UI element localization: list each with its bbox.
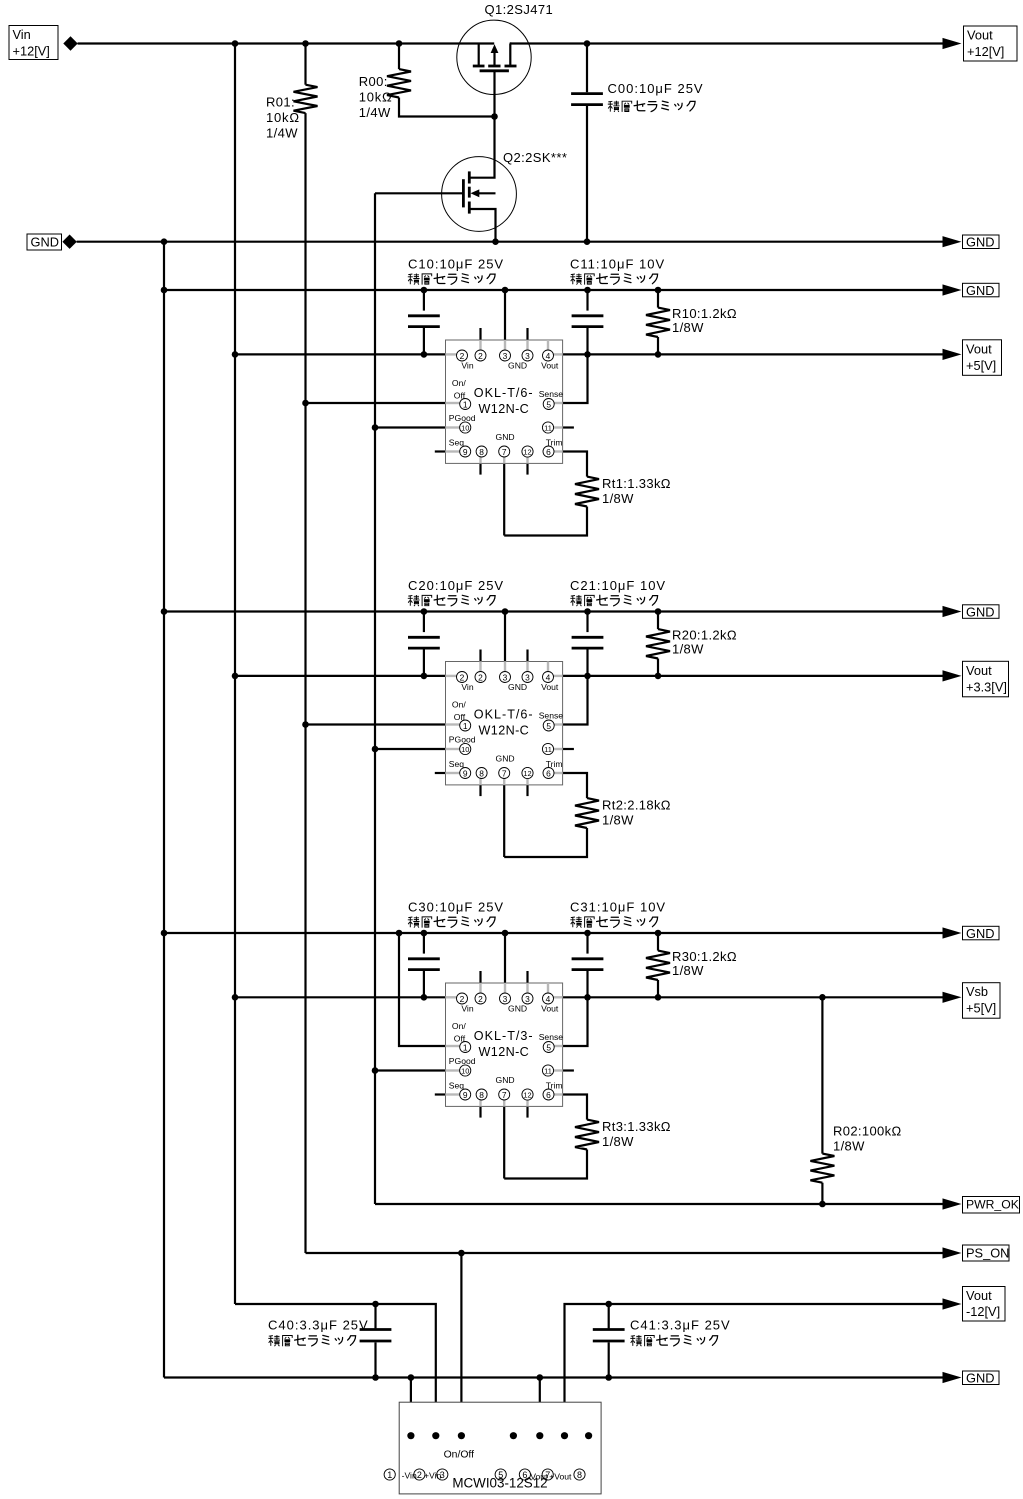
svg-text:C31:10μF 10V: C31:10μF 10V	[570, 900, 666, 915]
wire GND pin7 down (U2)	[503, 785, 505, 857]
node junction Vout rail U2 / bleeder	[655, 673, 662, 680]
svg-text:9: 9	[463, 447, 468, 457]
node Vsb +5[V] label	[963, 983, 1001, 1019]
resistor R30 bleeder 1.2k 1/8W	[657, 933, 659, 951]
node junction GND rail / C00	[584, 238, 591, 245]
svg-text:GND: GND	[966, 926, 994, 941]
op-amp U1 DC-DC module OKL-T/6-W12N-C body	[446, 340, 564, 463]
wire stub Seq pin9 (U3)	[435, 1093, 446, 1095]
resistor R20 bleeder 1.2k 1/8W	[657, 612, 659, 630]
node junction Vin bus / Vin rail U1	[232, 351, 239, 358]
wire GND pin3 to GND rail (U2)	[504, 612, 506, 662]
node GND diamond	[62, 235, 76, 249]
wire stub Seq pin9 (U1)	[435, 450, 446, 452]
wire stub pin8 (U2)	[479, 785, 481, 796]
svg-text:OKL-T/3-: OKL-T/3-	[474, 1029, 534, 1043]
svg-text:GND: GND	[508, 682, 527, 692]
wire MCW pin3 On/Off to PS_ON	[460, 1253, 462, 1436]
wire Vin rail module U2	[235, 675, 446, 677]
wire PGood pin10 to PWR_OK bus (U2)	[375, 748, 446, 750]
svg-text:+12[V]: +12[V]	[13, 44, 50, 59]
svg-text:Vout: Vout	[541, 1003, 559, 1013]
node PS_ON label	[963, 1245, 1010, 1261]
wire stub pin8 (U3)	[479, 1106, 481, 1117]
svg-text:1: 1	[463, 1043, 468, 1053]
wire arrow to output (U3)	[943, 992, 962, 1003]
node junction rail U1 / pin3 GND	[502, 287, 509, 294]
svg-text:10: 10	[461, 1067, 469, 1076]
wire Vout rail module U2	[563, 675, 945, 677]
node junction rail U3 / C31	[584, 930, 591, 937]
svg-text:PWR_OK: PWR_OK	[966, 1198, 1019, 1212]
svg-text:Vout: Vout	[966, 1288, 992, 1303]
node junction Vin rail U1 / input cap	[421, 351, 428, 358]
node junction rail U3 / C30	[421, 930, 428, 937]
wire Trim pin6 (U2)	[563, 773, 587, 798]
svg-text:10: 10	[461, 745, 469, 754]
node junction On/Off tie / GND rail U3	[396, 930, 403, 937]
node junction rail U1 / C11	[584, 287, 591, 294]
wire bottom GND line	[164, 1376, 945, 1378]
svg-text:12: 12	[523, 448, 531, 457]
svg-text:GND: GND	[966, 1371, 994, 1386]
svg-text:C30:10μF 25V: C30:10μF 25V	[408, 900, 504, 915]
svg-text:1/8W: 1/8W	[602, 813, 634, 828]
wire arrow to GND bottom	[943, 1372, 962, 1383]
node junction Vin rail U3 / input cap	[421, 994, 428, 1001]
wire Sense pin5 to Vout (U2)	[563, 676, 588, 725]
svg-text:W12N-C: W12N-C	[479, 402, 530, 416]
svg-text:1/8W: 1/8W	[672, 642, 704, 657]
wire -12V output from MCW +Vout	[565, 1304, 945, 1436]
wire stub pin11 (U1)	[563, 426, 574, 428]
op-amp U4 DC-DC module MCWI03-12S12 body	[399, 1402, 601, 1494]
svg-text:8: 8	[479, 447, 484, 457]
svg-text:7: 7	[502, 1090, 507, 1100]
svg-text:5: 5	[546, 400, 551, 410]
node junction rail U3 / bleeder	[655, 930, 662, 937]
node junction PWR_OK / R02	[819, 1201, 826, 1208]
wire stub pin11 (U3)	[563, 1069, 574, 1071]
node junction rail U2 / bleeder	[655, 608, 662, 615]
svg-text:Vout: Vout	[541, 360, 559, 370]
node junction Vsb rail / R02	[819, 994, 826, 1001]
svg-text:C21:10μF 10V: C21:10μF 10V	[570, 578, 666, 593]
wire MCW pin6 -Vout to GND	[539, 1378, 541, 1436]
wire stub pin12 (U1)	[526, 463, 528, 474]
svg-text:R10:1.2kΩ: R10:1.2kΩ	[672, 306, 737, 321]
node junction rail U2 / C21	[584, 608, 591, 615]
node junction Vin rail U2 / input cap	[421, 673, 428, 680]
node junction Vout rail U1 / bleeder	[655, 351, 662, 358]
svg-text:10kΩ: 10kΩ	[359, 89, 393, 104]
svg-text:Vin: Vin	[461, 1003, 473, 1013]
svg-text:3: 3	[503, 351, 508, 361]
node Vin diamond	[63, 36, 77, 50]
svg-text:+Vout: +Vout	[549, 1471, 572, 1481]
svg-text:+5[V]: +5[V]	[966, 358, 996, 373]
svg-text:PGood: PGood	[449, 1056, 476, 1066]
wire GND rail module U1	[164, 289, 945, 291]
svg-text:PGood: PGood	[449, 413, 476, 423]
wire stub pin3b (U1)	[526, 328, 528, 340]
node junction GND rail / GND bus	[161, 238, 168, 245]
svg-text:11: 11	[544, 745, 552, 754]
node junction rail U2 / pin3 GND	[502, 608, 509, 615]
svg-text:GND: GND	[496, 432, 515, 442]
wire Vout +12V top rail (Q1 to output)	[510, 42, 945, 44]
svg-text:8: 8	[577, 1470, 582, 1480]
svg-text:1/8W: 1/8W	[602, 491, 634, 506]
wire GND rail	[77, 241, 945, 243]
svg-text:12: 12	[523, 1091, 531, 1100]
node junction GND bus / rail U1	[161, 287, 168, 294]
wire On/Off pin1 tied to GND rail (U3)	[399, 933, 446, 1046]
svg-text:R30:1.2kΩ: R30:1.2kΩ	[672, 949, 737, 964]
wire Vin +12V top rail (left segment to Q1)	[78, 42, 495, 44]
node junction C41 bottom / GND line	[605, 1374, 612, 1381]
node junction Vout rail U3 / output cap / sense	[584, 994, 591, 1001]
svg-text:1/4W: 1/4W	[359, 105, 391, 120]
wire PGood PWR_OK bus vertical	[374, 193, 376, 1204]
svg-text:1/4W: 1/4W	[266, 126, 298, 141]
capacitor C31 output 10uF 10V	[586, 933, 588, 954]
svg-text:Seq: Seq	[449, 759, 465, 769]
svg-text:Sense: Sense	[539, 711, 564, 721]
node junction top rail / R00	[396, 40, 403, 47]
svg-text:10kΩ: 10kΩ	[266, 110, 300, 125]
svg-text:Vin: Vin	[461, 360, 473, 370]
svg-text:7: 7	[502, 447, 507, 457]
svg-text:W12N-C: W12N-C	[479, 723, 530, 737]
label MCW pin numbers	[384, 1469, 585, 1482]
svg-text:OKL-T/6-: OKL-T/6-	[474, 386, 534, 400]
node Vin terminal label	[9, 26, 58, 60]
svg-text:Seq: Seq	[449, 1080, 465, 1090]
node junction rail U3 / pin3 GND	[502, 930, 509, 937]
wire PGood pin10 to PWR_OK bus (U1)	[375, 426, 446, 428]
svg-text:1: 1	[387, 1470, 392, 1480]
wire arrow to GND (U3)	[943, 927, 962, 938]
svg-text:C00:10μF 25V: C00:10μF 25V	[608, 81, 704, 96]
node PWR_OK label	[963, 1197, 1020, 1214]
node junction GND / MCW -Vout	[537, 1374, 544, 1381]
svg-text:Rt1:1.33kΩ: Rt1:1.33kΩ	[602, 476, 671, 491]
capacitor C41 3.3uF 25V	[608, 1304, 610, 1328]
wire arrow to GND (U2)	[943, 606, 962, 617]
wire MCW pin1 -Vin to GND	[410, 1378, 412, 1436]
svg-text:Vsb: Vsb	[966, 984, 988, 999]
node junction Vout rail U2 / output cap / sense	[584, 673, 591, 680]
capacitor C00 10uF 25V	[586, 44, 588, 93]
svg-text:6: 6	[546, 447, 551, 457]
node junction top rail / C00	[584, 40, 591, 47]
node junction C40 bottom / GND line	[372, 1374, 379, 1381]
svg-text:W12N-C: W12N-C	[479, 1045, 530, 1059]
node junction GND bus / rail U3	[161, 930, 168, 937]
wire arrow to PS_ON	[943, 1247, 962, 1258]
wire arrow to output (U1)	[943, 349, 962, 360]
capacitor C11 output 10uF 10V	[586, 290, 588, 311]
wire GND bus vertical	[163, 242, 165, 1378]
wire PGood pin10 to PWR_OK bus (U3)	[375, 1069, 446, 1071]
node junction Vin bus / Vin rail U3	[232, 994, 239, 1001]
svg-text:5: 5	[546, 1043, 551, 1053]
transistor Q2 2SK*** N-ch MOSFET	[442, 117, 517, 242]
resistor Rt3 trim 1/8W	[575, 1120, 599, 1150]
svg-text:Q2:2SK***: Q2:2SK***	[503, 150, 567, 165]
wire Sense pin5 to Vout (U3)	[563, 997, 588, 1046]
node junction PS_ON / MCW On/Off	[458, 1250, 465, 1257]
wire PS_ON line	[306, 1252, 945, 1254]
wire On/Off PS_ON bus vertical	[304, 113, 306, 1253]
svg-text:12: 12	[523, 769, 531, 778]
svg-text:6: 6	[546, 1090, 551, 1100]
wire GND pin3 to GND rail (U1)	[504, 290, 506, 340]
wire arrow to PWR_OK	[943, 1198, 962, 1209]
svg-text:3: 3	[503, 994, 508, 1004]
wire stub pin12 (U3)	[526, 1106, 528, 1117]
node junction On/Off bus (U1)	[302, 400, 309, 407]
wire Trim pin6 (U3)	[563, 1095, 587, 1120]
svg-text:5: 5	[546, 721, 551, 731]
wire Sense pin5 to Vout (U1)	[563, 354, 588, 403]
svg-text:Seq: Seq	[449, 437, 465, 447]
svg-text:1/8W: 1/8W	[672, 963, 704, 978]
svg-text:10: 10	[461, 424, 469, 433]
wire GND pin7 down (U3)	[503, 1106, 505, 1178]
svg-text:1: 1	[463, 400, 468, 410]
svg-text:+3.3[V]: +3.3[V]	[966, 679, 1007, 694]
svg-text:+Vin: +Vin	[424, 1470, 442, 1480]
resistor R00 10k 1/4W (Vin to Q1 gate)	[398, 44, 400, 70]
wire stub pin12 (U2)	[526, 785, 528, 796]
svg-text:-Vin: -Vin	[402, 1470, 417, 1480]
svg-text:8: 8	[479, 1090, 484, 1100]
wire stub pin3b (U2)	[526, 650, 528, 662]
svg-text:+5[V]: +5[V]	[966, 1001, 996, 1016]
svg-text:MCWI03-12S12: MCWI03-12S12	[452, 1475, 547, 1490]
wire Vout rail module U3	[563, 996, 945, 998]
svg-text:GND: GND	[31, 235, 59, 250]
svg-text:C10:10μF 25V: C10:10μF 25V	[408, 257, 504, 272]
svg-text:6: 6	[546, 769, 551, 779]
svg-text:OKL-T/6-: OKL-T/6-	[474, 708, 534, 722]
node GND label bottom	[963, 1371, 1000, 1386]
svg-text:GND: GND	[966, 605, 994, 620]
svg-text:Rt2:2.18kΩ: Rt2:2.18kΩ	[602, 798, 671, 813]
node GND label U3	[963, 926, 1000, 941]
node junction top rail / Vin bus	[232, 40, 239, 47]
svg-text:2: 2	[478, 351, 483, 361]
wire stub pin2b (U3)	[479, 971, 481, 983]
node GND terminal label	[27, 234, 62, 250]
op-amp U3 DC-DC module OKL-T/3-W12N-C body	[446, 983, 564, 1106]
resistor R10 bleeder 1.2k 1/8W	[657, 290, 659, 308]
wire +12V to MCW +Vin with C40	[235, 1304, 436, 1436]
svg-text:Sense: Sense	[539, 389, 564, 399]
svg-text:Sense: Sense	[539, 1032, 564, 1042]
node junction Vout rail U3 / bleeder	[655, 994, 662, 1001]
svg-text:On/Off: On/Off	[444, 1450, 475, 1461]
svg-text:PS_ON: PS_ON	[966, 1246, 1009, 1261]
wire Trim pin6 (U1)	[563, 452, 587, 477]
svg-text:9: 9	[463, 769, 468, 779]
svg-text:1/8W: 1/8W	[602, 1134, 634, 1149]
wire stub Seq pin9 (U2)	[435, 772, 446, 774]
wire GND rail module U3	[164, 932, 945, 934]
node junction GND rail / Q2 source	[492, 238, 499, 245]
node junction Vout rail U1 / output cap / sense	[584, 351, 591, 358]
node junction rail U1 / bleeder	[655, 287, 662, 294]
wire Vout rail module U1	[563, 353, 945, 355]
node junction C40 top	[372, 1301, 379, 1308]
wire On/Off pin1 to PS_ON bus (U2)	[306, 723, 446, 725]
node GND label U2	[963, 605, 1000, 620]
svg-text:Vin: Vin	[13, 27, 31, 42]
svg-text:R00:: R00:	[359, 74, 388, 89]
svg-text:Vout: Vout	[966, 663, 992, 678]
wire Vin rail module U3	[235, 996, 446, 998]
op-amp U2 DC-DC module OKL-T/6-W12N-C body	[446, 662, 564, 785]
svg-text:R02:100kΩ: R02:100kΩ	[833, 1123, 902, 1138]
resistor R02 100k 1/8W (Vsb to PWR_OK)	[821, 997, 823, 1153]
svg-text:GND: GND	[496, 1075, 515, 1085]
capacitor C10 input 10uF 25V	[423, 290, 425, 311]
resistor Rt2 trim 1/8W	[575, 798, 599, 828]
wire stub pin3b (U3)	[526, 971, 528, 983]
svg-text:Rt3:1.33kΩ: Rt3:1.33kΩ	[602, 1119, 671, 1134]
svg-text:-12[V]: -12[V]	[966, 1304, 1000, 1319]
wire Q2 gate to PGood bus	[375, 192, 463, 194]
node junction PGood bus (U2)	[372, 746, 379, 753]
resistor Rt1 trim 1/8W	[575, 477, 599, 507]
node junction GND bus / rail U2	[161, 608, 168, 615]
wire GND pin3 to GND rail (U3)	[504, 933, 506, 983]
wire stub pin8 (U1)	[479, 463, 481, 474]
node junction C41 top / -12V line	[605, 1301, 612, 1308]
svg-text:1: 1	[463, 721, 468, 731]
wire stub pin11 (U2)	[563, 748, 574, 750]
svg-text:9: 9	[463, 1090, 468, 1100]
node Vout +12V label	[964, 26, 1018, 61]
wire PWR_OK line	[375, 1203, 945, 1205]
svg-text:+12[V]: +12[V]	[967, 44, 1004, 59]
wire arrow to GND	[943, 236, 962, 247]
node GND label top right	[963, 235, 1000, 250]
capacitor C30 input 10uF 25V	[423, 933, 425, 954]
node Vout +5[V] label	[963, 340, 1002, 376]
transistor Q1 2SJ471 P-ch MOSFET	[457, 20, 531, 116]
wire arrow to Vout +12V	[943, 38, 962, 49]
svg-text:Q1:2SJ471: Q1:2SJ471	[485, 2, 554, 17]
wire GND rail module U2	[164, 610, 945, 612]
svg-text:GND: GND	[508, 1003, 527, 1013]
svg-text:1/8W: 1/8W	[833, 1139, 865, 1154]
node junction GND / MCW -Vin	[408, 1374, 415, 1381]
svg-text:2: 2	[478, 673, 483, 683]
svg-text:C40:3.3μF 25V: C40:3.3μF 25V	[268, 1317, 369, 1332]
svg-text:3: 3	[503, 673, 508, 683]
svg-text:8: 8	[479, 769, 484, 779]
capacitor C40 3.3uF 25V	[374, 1304, 376, 1328]
svg-text:On/: On/	[452, 700, 466, 710]
wire Vin +12V bus vertical	[234, 44, 236, 1305]
svg-text:11: 11	[544, 424, 552, 433]
node junction Q1 gate / R00 / Q2 drain	[491, 113, 498, 120]
wire arrow to Vout -12V	[943, 1298, 962, 1309]
svg-text:Vout: Vout	[541, 682, 559, 692]
svg-text:GND: GND	[966, 283, 994, 298]
node junction rail U1 / C10	[421, 287, 428, 294]
svg-text:C41:3.3μF 25V: C41:3.3μF 25V	[630, 1317, 731, 1332]
wire arrow to GND (U1)	[943, 284, 962, 295]
node Vout -12V label	[963, 1287, 1006, 1322]
svg-text:2: 2	[417, 1470, 422, 1480]
svg-text:11: 11	[544, 1067, 552, 1076]
svg-text:R01:: R01:	[266, 95, 295, 110]
svg-text:PGood: PGood	[449, 735, 476, 745]
resistor R01 10k 1/4W (Vin to On/Off bus)	[304, 44, 306, 85]
svg-text:On/: On/	[452, 1021, 466, 1031]
capacitor C20 input 10uF 25V	[423, 612, 425, 633]
svg-text:Vout: Vout	[967, 28, 993, 43]
svg-text:C11:10μF 10V: C11:10μF 10V	[570, 257, 665, 272]
node junction PGood bus (U1)	[372, 424, 379, 431]
svg-text:2: 2	[478, 994, 483, 1004]
wire GND pin7 down (U1)	[503, 463, 505, 535]
node junction PGood bus (U3)	[372, 1067, 379, 1074]
svg-text:GND: GND	[966, 235, 994, 250]
svg-text:GND: GND	[508, 360, 527, 370]
svg-text:1/8W: 1/8W	[672, 320, 704, 335]
wire Vin rail module U1	[235, 353, 446, 355]
svg-text:R20:1.2kΩ: R20:1.2kΩ	[672, 628, 737, 643]
wire stub pin2b (U2)	[479, 650, 481, 662]
node junction Vin bus / Vin rail U2	[232, 673, 239, 680]
wire stub pin2b (U1)	[479, 328, 481, 340]
wire On/Off pin1 to PS_ON bus (U1)	[306, 402, 446, 404]
svg-text:On/: On/	[452, 378, 466, 388]
svg-text:Vin: Vin	[461, 682, 473, 692]
node GND label U1	[963, 283, 1000, 298]
svg-text:7: 7	[502, 769, 507, 779]
capacitor C21 output 10uF 10V	[586, 612, 588, 633]
svg-text:Vout: Vout	[966, 341, 992, 356]
svg-text:GND: GND	[496, 753, 515, 763]
wire arrow to output (U2)	[943, 670, 962, 681]
node Vout +3.3[V] label	[963, 661, 1009, 697]
node junction top rail / R01	[302, 40, 309, 47]
svg-text:C20:10μF 25V: C20:10μF 25V	[408, 578, 504, 593]
node junction rail U2 / C20	[421, 608, 428, 615]
node junction On/Off bus (U2)	[302, 721, 309, 728]
